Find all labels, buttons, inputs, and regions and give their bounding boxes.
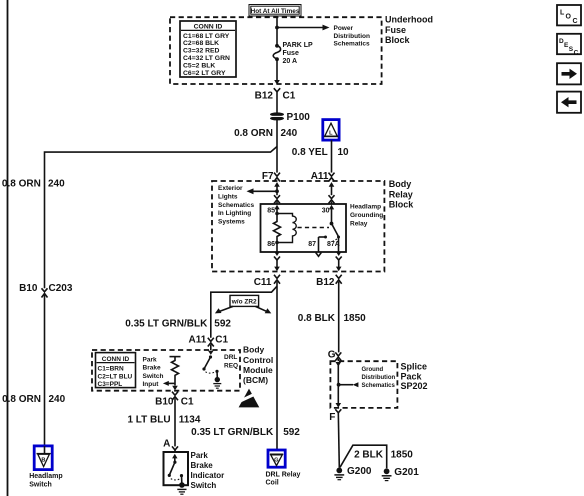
Body Relay Block label xyxy=(389,179,415,209)
node: junction to power distribution xyxy=(275,26,279,30)
svg-text:Indicator: Indicator xyxy=(191,471,225,480)
relay coil resistor (pin 85 to 86) xyxy=(274,212,281,245)
svg-text:DRL Relay: DRL Relay xyxy=(266,471,301,478)
Hot At All Times header box xyxy=(249,5,301,17)
label 0.8 ORN 240 (left branch) xyxy=(2,179,65,190)
label F7 xyxy=(262,171,274,182)
svg-text:Schematics: Schematics xyxy=(362,383,396,389)
svg-text:C5=2 BLK: C5=2 BLK xyxy=(183,62,215,69)
svg-text:L: L xyxy=(329,130,333,136)
relay K: headlamp grounding relay box xyxy=(261,204,347,252)
svg-text:1134: 1134 xyxy=(179,415,201,426)
label A xyxy=(163,439,170,450)
label 2 BLK 1850 xyxy=(354,449,413,460)
label B12 | C1 xyxy=(255,90,296,101)
svg-text:G201: G201 xyxy=(394,467,419,478)
svg-text:87: 87 xyxy=(308,241,316,248)
label 0.8 ORN 240 (upper) xyxy=(234,128,298,139)
icon: next arrow button xyxy=(557,63,581,84)
label B10 | C203 xyxy=(19,283,73,294)
relay pin 87A exit arrow and connector xyxy=(336,252,342,272)
label DRL Relay Coil xyxy=(266,471,301,486)
svg-text:C1: C1 xyxy=(283,90,296,101)
svg-text:Systems: Systems xyxy=(218,218,245,225)
connector ID table (BCM) xyxy=(96,353,136,389)
label: Ground Distribution Schematics xyxy=(362,367,396,389)
pin label 85 xyxy=(267,207,275,214)
icon: DESC button xyxy=(557,34,581,57)
ground: DRL request switch ground in BCM xyxy=(213,377,221,388)
svg-text:C3=PPL: C3=PPL xyxy=(98,381,123,388)
connector C11 xyxy=(274,275,280,450)
svg-text:Relay: Relay xyxy=(350,221,368,228)
Underhood Fuse Block dashed box xyxy=(170,17,382,84)
svg-text:0.8 ORN: 0.8 ORN xyxy=(2,394,41,405)
svg-text:Fuse: Fuse xyxy=(283,50,299,57)
svg-text:A11: A11 xyxy=(311,171,329,182)
svg-text:Control: Control xyxy=(243,355,273,365)
label F xyxy=(329,412,335,423)
svg-text:Relay: Relay xyxy=(389,189,413,199)
svg-text:0.8 YEL: 0.8 YEL xyxy=(292,147,328,158)
wire: 0.8 YEL 10 down to A11 xyxy=(331,140,333,172)
wire: branch to G201 xyxy=(340,445,387,468)
svg-text:CONN ID: CONN ID xyxy=(194,24,223,31)
svg-text:85: 85 xyxy=(267,207,275,214)
label G200 xyxy=(347,466,372,477)
svg-text:240: 240 xyxy=(49,394,66,405)
svg-text:592: 592 xyxy=(283,427,300,438)
pin labels 87 and 87A xyxy=(308,241,340,248)
dashed actuation line from coil to contact xyxy=(298,227,330,229)
connector A11/C1 at BCM xyxy=(208,338,214,350)
svg-text:Coil: Coil xyxy=(266,480,279,487)
svg-text:0.8 BLK: 0.8 BLK xyxy=(298,313,336,324)
svg-text:B10: B10 xyxy=(155,397,174,408)
relay coil winding (parallel path) xyxy=(277,214,296,243)
svg-text:0.35 LT GRN/BLK: 0.35 LT GRN/BLK xyxy=(125,319,208,330)
svg-text:Headlamp: Headlamp xyxy=(29,473,62,480)
svg-text:Input: Input xyxy=(143,381,160,388)
connector A at park brake indicator switch xyxy=(172,446,178,452)
label G201 xyxy=(394,467,419,478)
label: Park Brake Indicator Switch xyxy=(191,451,225,490)
svg-text:Module: Module xyxy=(243,365,273,375)
svg-text:Schematics: Schematics xyxy=(218,202,255,209)
label 0.8 YEL 10 xyxy=(292,147,349,158)
headlamp switch destination symbol xyxy=(34,446,52,470)
node: splice junction SP202 xyxy=(337,383,341,387)
svg-text:30: 30 xyxy=(322,207,330,214)
svg-text:B12: B12 xyxy=(255,90,274,101)
svg-text:In Lighting: In Lighting xyxy=(218,210,251,217)
svg-text:B: B xyxy=(41,457,45,463)
svg-text:C203: C203 xyxy=(49,283,73,294)
label: Power Distribution Schematics xyxy=(334,25,371,48)
connector at relay pin 85 xyxy=(274,195,280,204)
svg-text:C3=32 RED: C3=32 RED xyxy=(183,48,220,55)
svg-text:C2=68 BLK: C2=68 BLK xyxy=(183,40,219,47)
relay pin 87A wire xyxy=(338,237,340,252)
wire: battery feed from Hot At All Times into fuse block xyxy=(276,16,278,46)
pin label 30 xyxy=(322,207,330,214)
svg-text:1850: 1850 xyxy=(344,313,367,324)
label 0.35 LT GRN/BLK 592 (DRL coil feed) xyxy=(191,427,300,438)
svg-text:REQ: REQ xyxy=(224,362,238,369)
label 0.35 LT GRN/BLK 592 (BCM input) xyxy=(125,319,231,330)
svg-text:C6=2 LT GRY: C6=2 LT GRY xyxy=(183,70,226,77)
label A11 | C1 (BCM) xyxy=(189,334,229,345)
svg-text:0.8 ORN: 0.8 ORN xyxy=(234,128,273,139)
label 1 LT BLU 1134 xyxy=(127,415,200,426)
fuse PARK LP 20 A xyxy=(273,44,280,61)
switch: park brake indicator xyxy=(168,454,183,483)
svg-text:C1: C1 xyxy=(215,334,228,345)
svg-text:PARK LP: PARK LP xyxy=(283,42,314,49)
svg-text:1 LT BLU: 1 LT BLU xyxy=(127,415,170,426)
svg-text:Switch: Switch xyxy=(143,373,164,380)
svg-text:B10: B10 xyxy=(19,283,38,294)
label G xyxy=(328,349,336,360)
svg-text:L: L xyxy=(560,10,565,17)
svg-text:C4=32 LT GRN: C4=32 LT GRN xyxy=(183,55,230,62)
label B12 (lower) xyxy=(316,277,335,288)
ESD sensitivity triangle symbol xyxy=(237,389,261,408)
svg-text:Distribution: Distribution xyxy=(362,375,396,381)
Body Relay Block dashed box xyxy=(212,181,384,272)
svg-text:592: 592 xyxy=(214,319,231,330)
wire: fuse output to B12 xyxy=(276,59,278,80)
svg-text:Switch: Switch xyxy=(29,481,52,488)
svg-text:Exterior: Exterior xyxy=(218,185,243,192)
svg-text:240: 240 xyxy=(281,128,298,139)
connector B12/C1 fork xyxy=(274,88,280,113)
svg-text:F: F xyxy=(329,412,335,423)
label: PARK LP Fuse 20 A xyxy=(283,42,314,65)
svg-text:Ground: Ground xyxy=(362,367,384,373)
svg-text:(BCM): (BCM) xyxy=(243,375,268,385)
wire: branch from C11 to BCM A11 xyxy=(211,286,277,338)
svg-text:0.8 ORN: 0.8 ORN xyxy=(2,179,41,190)
svg-text:Park: Park xyxy=(191,451,209,460)
svg-text:A: A xyxy=(163,439,170,450)
svg-text:Power: Power xyxy=(334,25,354,32)
Body Control Module label xyxy=(243,345,273,386)
svg-text:0.35 LT GRN/BLK: 0.35 LT GRN/BLK xyxy=(191,427,274,438)
wire: arrow to Power Distribution Schematics xyxy=(277,25,330,31)
connector B10/C203 xyxy=(42,288,48,445)
label: Park Brake Switch Input xyxy=(143,356,164,388)
svg-text:B12: B12 xyxy=(316,277,335,288)
svg-text:w/o ZR2: w/o ZR2 xyxy=(231,299,257,306)
label DRL REQ xyxy=(224,354,238,369)
connector F7 xyxy=(274,173,280,196)
svg-text:Switch: Switch xyxy=(191,481,217,490)
park brake indicator switch box xyxy=(164,452,189,485)
resistor output arrow exiting BCM xyxy=(172,386,178,391)
svg-text:Body: Body xyxy=(243,345,265,355)
svg-text:C11: C11 xyxy=(254,277,272,288)
splice pack internal wire with entry arrow xyxy=(336,362,342,408)
Splice Pack SP202 dashed box xyxy=(330,361,397,408)
svg-text:240: 240 xyxy=(48,179,65,190)
icon: back arrow button xyxy=(557,92,581,113)
relay pin 85 entry arrow xyxy=(274,205,279,214)
page border left edge xyxy=(7,0,9,496)
svg-text:Splice: Splice xyxy=(401,362,428,372)
switch: DRL request inside BCM xyxy=(202,351,218,378)
ground G200 xyxy=(334,468,344,480)
svg-text:1850: 1850 xyxy=(391,449,414,460)
connector at relay pin 30 xyxy=(329,195,335,204)
icon: LOC button xyxy=(557,5,581,25)
svg-text:C1=BRN: C1=BRN xyxy=(98,366,124,373)
symbol: fusible link L (blue box) feeding A11 xyxy=(323,120,339,141)
connector A11 (relay feed) xyxy=(329,173,335,196)
label: Headlamp Grounding Relay xyxy=(350,204,383,228)
svg-text:Schematics: Schematics xyxy=(334,41,371,48)
svg-text:C2=LT BLU: C2=LT BLU xyxy=(98,373,133,380)
connector F below splice pack xyxy=(335,409,341,467)
wire: arrow to Ground Distribution Schematics xyxy=(339,382,359,387)
grommet P100 xyxy=(270,112,285,120)
label C11 xyxy=(254,277,272,288)
label: Exterior Lights Schematics In Lighting Systems xyxy=(218,185,255,225)
svg-text:C1: C1 xyxy=(181,397,194,408)
svg-text:C: C xyxy=(573,18,578,25)
dashed throw arc at 87A xyxy=(333,238,338,241)
label P100 xyxy=(287,112,311,123)
arrowhead leaving fuse block xyxy=(274,80,280,85)
svg-text:10: 10 xyxy=(338,147,350,158)
w/o ZR2 tag box xyxy=(230,295,259,306)
w/o ZR2 arrow right xyxy=(256,306,272,313)
label A11 xyxy=(311,171,329,182)
label 0.8 BLK 1850 xyxy=(298,313,366,324)
node: junction for exterior lights tap xyxy=(275,189,279,193)
relay pin 86 exit arrow and connector xyxy=(274,252,280,272)
svg-text:P100: P100 xyxy=(287,112,311,123)
svg-text:Brake: Brake xyxy=(143,365,161,372)
label Headlamp Switch xyxy=(29,473,62,488)
svg-text:DRL: DRL xyxy=(224,354,237,361)
relay pin 86 exit wire xyxy=(276,243,278,252)
svg-text:A11: A11 xyxy=(189,334,207,345)
svg-text:Headlamp: Headlamp xyxy=(350,204,381,211)
svg-text:Distribution: Distribution xyxy=(334,33,370,40)
Splice Pack SP202 label xyxy=(401,362,428,392)
svg-text:Hot At All Times: Hot At All Times xyxy=(251,8,300,15)
Body Control Module dashed box xyxy=(92,350,240,391)
DRL relay coil destination symbol xyxy=(268,450,285,467)
svg-text:SP202: SP202 xyxy=(401,381,428,391)
connector B10/C1 below BCM xyxy=(172,392,178,447)
svg-text:86: 86 xyxy=(267,241,275,248)
svg-text:O: O xyxy=(566,14,572,21)
svg-text:CONN ID: CONN ID xyxy=(102,356,130,363)
connector G at splice pack xyxy=(335,352,341,361)
svg-text:C: C xyxy=(574,50,579,57)
resistor: park brake switch input pull-up xyxy=(170,357,181,386)
wire: 0.8 ORN 240 down to F7 xyxy=(276,120,278,173)
svg-text:Block: Block xyxy=(385,35,411,45)
svg-text:20 A: 20 A xyxy=(283,58,298,65)
svg-text:C1=68 LT GRY: C1=68 LT GRY xyxy=(183,33,230,40)
wire: branch to headlamp switch (diagonal + horizontal + drop) xyxy=(45,147,278,289)
label B10 | C1 xyxy=(155,397,194,408)
svg-text:Lights: Lights xyxy=(218,194,238,201)
svg-text:G: G xyxy=(328,349,336,360)
svg-text:F7: F7 xyxy=(262,171,274,182)
svg-text:Pack: Pack xyxy=(401,371,423,381)
ground: park brake switch chassis ground xyxy=(177,482,186,494)
Underhood Fuse Block label xyxy=(385,15,433,45)
svg-text:Park: Park xyxy=(143,356,157,363)
label 0.8 ORN 240 (lower left) xyxy=(2,394,66,405)
svg-text:Block: Block xyxy=(389,200,415,210)
pin label 86 xyxy=(267,241,275,248)
svg-text:2 BLK: 2 BLK xyxy=(354,449,384,460)
svg-text:Brake: Brake xyxy=(191,461,214,470)
svg-text:Fuse: Fuse xyxy=(385,25,406,35)
svg-text:G200: G200 xyxy=(347,466,372,477)
svg-text:Underhood: Underhood xyxy=(385,15,433,25)
wire: arrow to Exterior Lights Schematics xyxy=(247,188,278,194)
svg-text:G: G xyxy=(274,458,278,464)
connector B12 (lower) xyxy=(336,275,342,353)
relay pin 87 stub (open contact) xyxy=(316,236,327,257)
relay contact: pin 30 wire and movable arm xyxy=(329,205,340,239)
svg-text:Body: Body xyxy=(389,179,412,189)
connector ID table (underhood) xyxy=(180,21,236,77)
arrow from park brake input text to resistor xyxy=(163,381,175,386)
ground G201 xyxy=(382,468,392,480)
w/o ZR2 arrow left xyxy=(215,306,233,313)
svg-text:Grounding: Grounding xyxy=(350,212,383,219)
